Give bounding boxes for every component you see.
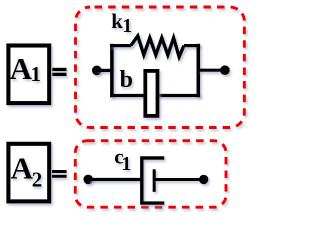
equals sign 2 [52,170,67,178]
terminal node right 1 [220,65,230,75]
block A2 [8,144,49,202]
spring k1 [131,36,184,57]
terminal node left 2 [83,175,93,185]
junction bar right [197,44,201,98]
equals sign 1 [52,68,66,76]
svg-text:k1: k1 [111,9,132,37]
label k1 [111,9,132,37]
top rail wire right [184,44,200,47]
top rail wire left [110,44,131,47]
dashed box 1 [76,7,245,128]
damper c1 piston plate [153,169,156,192]
terminal node right 2 [199,175,208,184]
wire left 1 [97,69,112,72]
wire left 2 [88,178,142,181]
damper b body [145,71,157,116]
bottom rail wire [110,94,200,97]
damper c1 piston rod [154,178,204,181]
label A1 [10,51,41,86]
svg-text:c1: c1 [114,145,131,175]
svg-text:b: b [120,67,133,93]
block A1 [8,46,49,104]
label c1 [114,145,131,175]
terminal node left 1 [92,66,102,76]
damper c1 cylinder [142,158,165,203]
wire right 1 [198,69,225,72]
dashed box 2 [75,141,226,208]
label b [120,67,133,93]
label A2 [11,151,43,192]
junction bar left [110,44,114,98]
